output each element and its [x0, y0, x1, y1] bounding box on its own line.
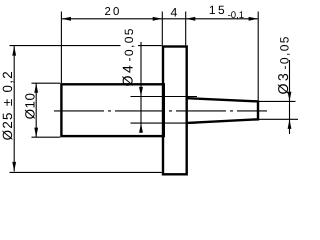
arrow O10 bottom [34, 128, 38, 138]
arrow 20 left [61, 17, 71, 21]
arrow O3 bottom outside [288, 119, 292, 129]
svg-text:4: 4 [170, 5, 177, 19]
svg-text:-0,1: -0,1 [228, 10, 245, 21]
dimension line O3 [289, 60, 291, 134]
dimension line O4 [140, 42, 142, 131]
svg-text:Ø3-0,05: Ø3-0,05 [276, 35, 292, 94]
extension line taper-tip [257, 12, 259, 101]
arrow O3 top outside [288, 92, 292, 102]
extension tick O4 bottom [131, 122, 198, 124]
body cylinder O10 outline [61, 84, 163, 136]
dimension line O10 [35, 83, 37, 137]
top dimension line [61, 18, 258, 20]
extension line O10 bottom [32, 136, 61, 138]
arrow O4 top outside [139, 87, 143, 97]
extension line flange-left [161, 12, 163, 46]
centerline [54, 110, 267, 112]
svg-text:Ø25 ± 0,2: Ø25 ± 0,2 [0, 70, 15, 140]
extension tick O4 top [131, 96, 198, 98]
svg-text:20: 20 [104, 6, 121, 18]
extension line O3 top [259, 100, 296, 102]
arrow O25 top [12, 46, 16, 56]
dimension line O25 [13, 46, 15, 172]
svg-text:15: 15 [209, 3, 227, 17]
arrow O10 top [34, 83, 38, 93]
extension line flange top (O25) [10, 45, 121, 47]
extension line O3 bottom [259, 118, 298, 120]
arrow 15 right [249, 17, 259, 21]
taper pin O4 to O3 outline [187, 98, 258, 123]
extension line flange bottom (O25) [10, 171, 162, 173]
arrow 4 right outside [186, 17, 196, 21]
svg-text:Ø4-0,05: Ø4-0,05 [121, 27, 137, 86]
extension line O10 top [32, 82, 61, 84]
svg-text:Ø10: Ø10 [23, 93, 38, 120]
extension line body-left [60, 12, 62, 84]
flange disc O25 outline [163, 47, 187, 175]
arrow O25 bottom [12, 162, 16, 172]
arrow 20 right [153, 17, 163, 21]
arrow O4 bottom outside [139, 123, 143, 133]
extension line flange top right segment [138, 45, 162, 47]
extension line flange-right [185, 12, 187, 46]
